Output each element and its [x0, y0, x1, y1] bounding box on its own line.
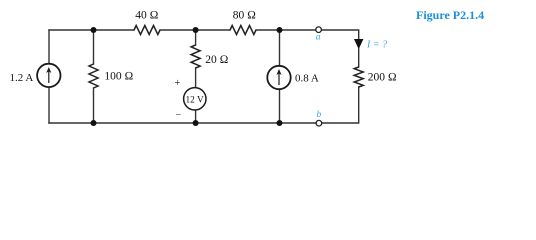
wire 12V source to bottom: [195, 110, 197, 123]
resistor 80 ohm zigzag: [230, 26, 256, 35]
wire 20-ohm branch upper lead: [195, 30, 197, 45]
svg-text:12 V: 12 V: [186, 95, 204, 105]
wire 100-ohm branch upper lead: [93, 30, 95, 64]
voltage source 12V circle: [184, 88, 206, 110]
wire right branch: 200-ohm to bottom corner to node b: [322, 87, 359, 123]
svg-text:1.2 A: 1.2 A: [10, 72, 34, 84]
wire 0.8A branch upper lead: [279, 30, 281, 66]
wire top: left corner to 40-ohm resistor: [49, 29, 134, 31]
wire right branch: arrow to 200-ohm resistor: [358, 49, 360, 67]
svg-text:a: a: [316, 33, 321, 43]
resistor 200 ohm zigzag: [354, 67, 363, 87]
resistor 20 ohm zigzag: [191, 45, 200, 68]
current source 1.2A circle and arrow: [37, 64, 60, 87]
svg-text:40 Ω: 40 Ω: [135, 10, 158, 22]
svg-text:b: b: [317, 110, 322, 120]
resistor 100 ohm zigzag: [89, 64, 98, 88]
svg-text:I = ?: I = ?: [366, 40, 387, 51]
wire top-right: node a to corner, down to current arrow: [322, 30, 359, 40]
current source 0.8A circle and arrow: [267, 66, 290, 89]
svg-text:100 Ω: 100 Ω: [104, 70, 133, 82]
svg-text:+: +: [175, 78, 181, 89]
node a terminal circle: [316, 27, 322, 33]
junction dot bottom of 0.8A branch: [277, 120, 283, 126]
wire left branch lower segment: [48, 87, 50, 123]
junction dot bottom of 100-ohm branch: [91, 120, 97, 126]
current direction arrow for I: [354, 39, 363, 49]
svg-text:0.8 A: 0.8 A: [295, 73, 319, 85]
wire bottom: left corner to node b: [49, 122, 316, 124]
svg-text:Figure P2.1.4: Figure P2.1.4: [416, 8, 484, 22]
wire 100-ohm branch lower lead: [93, 88, 95, 123]
wire top: 80-ohm to node a: [256, 29, 316, 31]
junction dot top of 100-ohm branch: [91, 27, 97, 33]
wire 0.8A branch lower lead: [279, 89, 281, 123]
svg-text:20 Ω: 20 Ω: [205, 54, 228, 66]
wire top: 40-ohm to 80-ohm: [160, 29, 230, 31]
junction dot top of 20-ohm branch: [193, 27, 199, 33]
junction dot bottom of 12V branch: [193, 120, 199, 126]
wire left branch upper segment: [48, 30, 50, 64]
node b terminal circle: [316, 120, 322, 126]
wire 20-ohm to 12V source: [195, 68, 197, 88]
svg-text:80 Ω: 80 Ω: [233, 10, 256, 22]
resistor 40 ohm zigzag: [134, 26, 160, 35]
svg-text:200 Ω: 200 Ω: [368, 72, 397, 84]
junction dot top of 0.8A branch: [277, 27, 283, 33]
svg-text:−: −: [176, 110, 182, 121]
